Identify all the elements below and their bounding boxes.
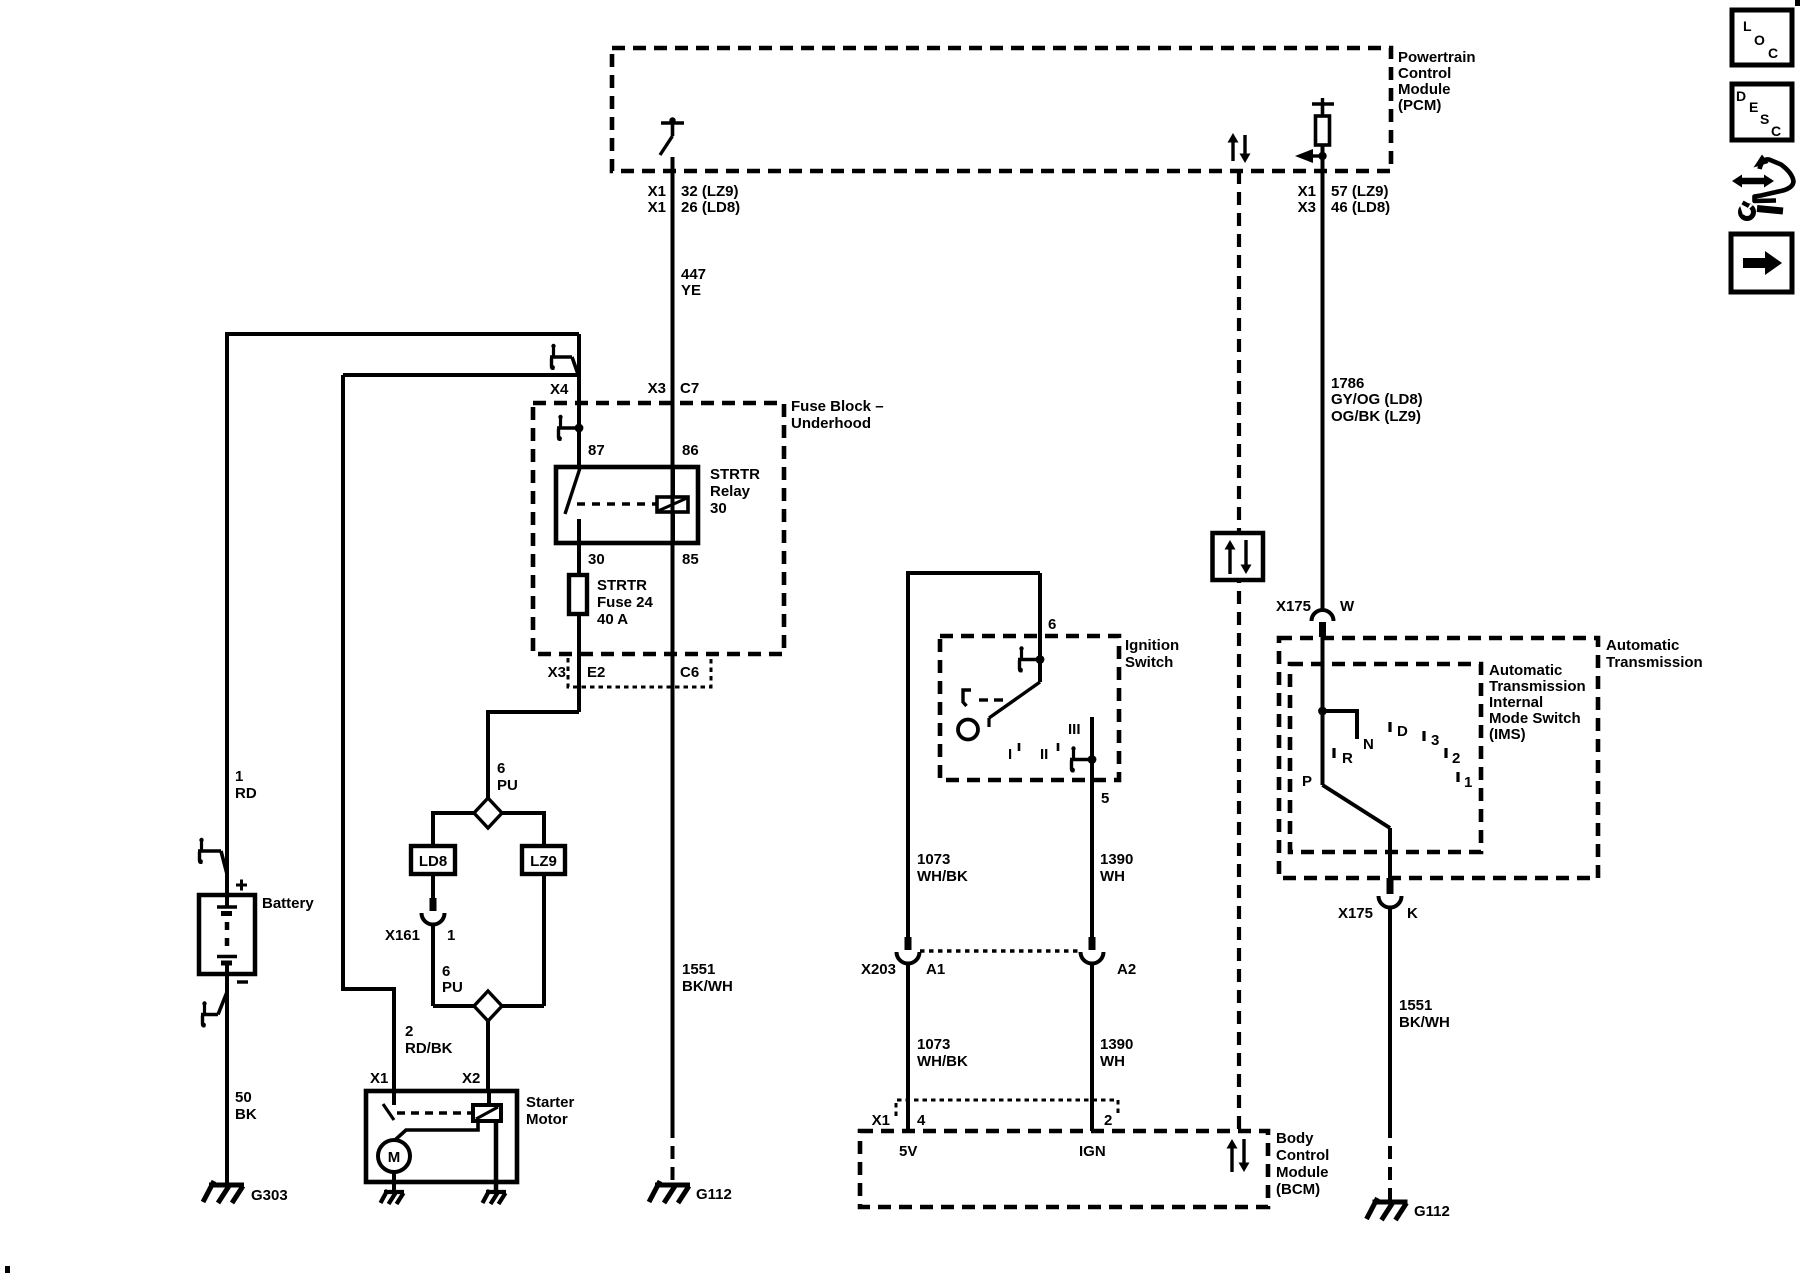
svg-text:G303: G303	[251, 1187, 288, 1204]
svg-text:II: II	[1040, 746, 1048, 763]
svg-text:1: 1	[1464, 774, 1472, 791]
svg-text:X1: X1	[648, 199, 666, 216]
svg-text:87: 87	[588, 442, 605, 459]
svg-text:O: O	[1754, 32, 1765, 48]
svg-text:X1: X1	[370, 1070, 388, 1087]
svg-text:X4: X4	[550, 381, 569, 398]
svg-text:W: W	[1340, 598, 1355, 615]
svg-text:57 (LZ9): 57 (LZ9)	[1331, 183, 1389, 200]
svg-text:1073: 1073	[917, 851, 950, 868]
svg-text:Automatic: Automatic	[1489, 662, 1562, 679]
svg-text:(PCM): (PCM)	[1398, 97, 1441, 114]
svg-text:Automatic: Automatic	[1606, 637, 1679, 654]
svg-text:Motor: Motor	[526, 1111, 568, 1128]
svg-text:X175: X175	[1276, 598, 1311, 615]
svg-text:GY/OG (LD8): GY/OG (LD8)	[1331, 391, 1423, 408]
svg-text:C6: C6	[680, 664, 699, 681]
svg-text:G112: G112	[1414, 1203, 1450, 1220]
svg-text:E2: E2	[587, 664, 605, 681]
svg-text:40 A: 40 A	[597, 611, 628, 628]
svg-text:PU: PU	[497, 777, 518, 794]
svg-text:WH/BK: WH/BK	[917, 868, 968, 885]
svg-text:STRTR: STRTR	[710, 466, 760, 483]
svg-text:A2: A2	[1117, 961, 1136, 978]
svg-text:Powertrain: Powertrain	[1398, 49, 1476, 66]
svg-text:Module: Module	[1276, 1164, 1329, 1181]
svg-text:1073: 1073	[917, 1036, 950, 1053]
svg-text:P: P	[1302, 773, 1312, 790]
svg-text:X1: X1	[872, 1112, 890, 1129]
svg-text:30: 30	[588, 551, 605, 568]
svg-text:X3: X3	[648, 380, 666, 397]
svg-text:Body: Body	[1276, 1130, 1314, 1147]
svg-text:I: I	[1008, 746, 1012, 763]
svg-text:Starter: Starter	[526, 1094, 575, 1111]
svg-text:STRTR: STRTR	[597, 577, 647, 594]
svg-text:(BCM): (BCM)	[1276, 1181, 1320, 1198]
svg-text:46 (LD8): 46 (LD8)	[1331, 199, 1390, 216]
svg-text:X203: X203	[861, 961, 896, 978]
svg-text:1390: 1390	[1100, 851, 1133, 868]
svg-text:5: 5	[1101, 790, 1109, 807]
svg-text:Control: Control	[1276, 1147, 1329, 1164]
svg-text:6: 6	[497, 760, 505, 777]
svg-text:1551: 1551	[1399, 997, 1432, 1014]
svg-text:N: N	[1363, 736, 1374, 753]
svg-text:4: 4	[917, 1112, 926, 1129]
svg-text:Battery: Battery	[262, 895, 314, 912]
svg-text:A1: A1	[926, 961, 945, 978]
svg-text:Mode Switch: Mode Switch	[1489, 710, 1581, 727]
svg-text:S: S	[1760, 111, 1769, 127]
svg-text:C7: C7	[680, 380, 699, 397]
svg-text:RD/BK: RD/BK	[405, 1040, 453, 1057]
svg-text:D: D	[1397, 723, 1408, 740]
svg-text:Control: Control	[1398, 65, 1451, 82]
svg-text:Fuse Block –: Fuse Block –	[791, 398, 884, 415]
svg-text:1390: 1390	[1100, 1036, 1133, 1053]
svg-text:6: 6	[1048, 616, 1056, 633]
svg-text:Relay: Relay	[710, 483, 751, 500]
svg-text:3: 3	[1431, 732, 1439, 749]
svg-text:2: 2	[1104, 1112, 1112, 1129]
svg-text:RD: RD	[235, 785, 257, 802]
svg-text:OG/BK (LZ9): OG/BK (LZ9)	[1331, 408, 1421, 425]
svg-text:X175: X175	[1338, 905, 1373, 922]
svg-text:BK/WH: BK/WH	[682, 978, 733, 995]
svg-text:LZ9: LZ9	[530, 853, 557, 870]
svg-text:L: L	[1743, 18, 1752, 34]
svg-text:(IMS): (IMS)	[1489, 726, 1526, 743]
svg-text:K: K	[1407, 905, 1418, 922]
svg-text:X161: X161	[385, 927, 420, 944]
svg-text:Transmission: Transmission	[1489, 678, 1586, 695]
svg-text:Internal: Internal	[1489, 694, 1543, 711]
svg-text:5V: 5V	[899, 1143, 917, 1160]
svg-text:X1: X1	[648, 183, 666, 200]
svg-text:C: C	[1768, 45, 1778, 61]
svg-text:1551: 1551	[682, 961, 715, 978]
svg-text:1: 1	[235, 768, 243, 785]
svg-text:WH: WH	[1100, 868, 1125, 885]
svg-text:YE: YE	[681, 282, 701, 299]
svg-text:X3: X3	[1298, 199, 1316, 216]
svg-text:1786: 1786	[1331, 375, 1364, 392]
svg-text:6: 6	[442, 963, 450, 980]
svg-text:BK: BK	[235, 1106, 257, 1123]
svg-text:WH/BK: WH/BK	[917, 1053, 968, 1070]
svg-text:G112: G112	[696, 1186, 732, 1203]
svg-text:Switch: Switch	[1125, 654, 1173, 671]
svg-text:WH: WH	[1100, 1053, 1125, 1070]
svg-text:C: C	[1771, 123, 1781, 139]
svg-text:Ignition: Ignition	[1125, 637, 1179, 654]
svg-text:86: 86	[682, 442, 699, 459]
svg-text:BK/WH: BK/WH	[1399, 1014, 1450, 1031]
svg-text:Fuse 24: Fuse 24	[597, 594, 654, 611]
svg-text:D: D	[1736, 88, 1746, 104]
svg-text:IGN: IGN	[1079, 1143, 1106, 1160]
svg-text:32 (LZ9): 32 (LZ9)	[681, 183, 739, 200]
svg-text:85: 85	[682, 551, 699, 568]
svg-text:2: 2	[405, 1023, 413, 1040]
svg-text:30: 30	[710, 500, 727, 517]
svg-text:2: 2	[1452, 750, 1460, 767]
svg-text:1: 1	[447, 927, 455, 944]
svg-text:50: 50	[235, 1089, 252, 1106]
svg-text:E: E	[1749, 99, 1758, 115]
svg-text:PU: PU	[442, 979, 463, 996]
svg-text:Underhood: Underhood	[791, 415, 871, 432]
svg-text:M: M	[388, 1149, 401, 1166]
svg-text:Module: Module	[1398, 81, 1451, 98]
svg-text:X1: X1	[1298, 183, 1316, 200]
svg-text:R: R	[1342, 750, 1353, 767]
svg-text:LD8: LD8	[419, 853, 447, 870]
svg-text:X3: X3	[548, 664, 566, 681]
svg-text:Transmission: Transmission	[1606, 654, 1703, 671]
svg-text:26 (LD8): 26 (LD8)	[681, 199, 740, 216]
svg-text:X2: X2	[462, 1070, 480, 1087]
svg-text:III: III	[1068, 721, 1081, 738]
svg-text:447: 447	[681, 266, 706, 283]
